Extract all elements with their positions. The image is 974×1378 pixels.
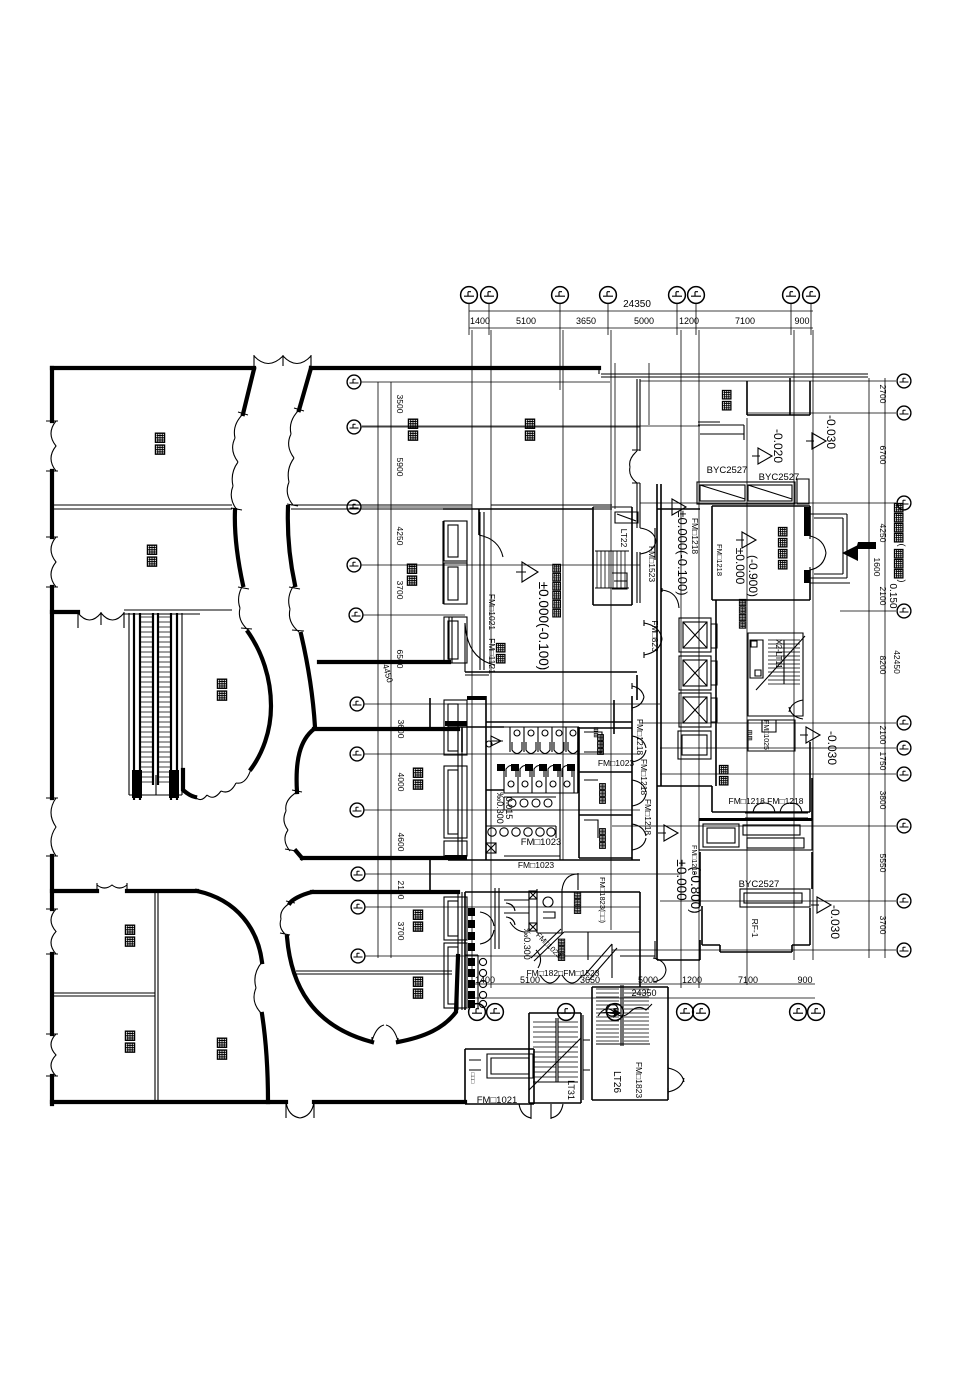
svg-text:5550: 5550 <box>878 854 888 873</box>
svg-text:FM□1023: FM□1023 <box>521 837 562 848</box>
svg-text:-0.030: -0.030 <box>828 905 842 939</box>
shop label 3 <box>217 679 226 700</box>
bottom grid bubbles <box>469 1004 486 1021</box>
stair X2-LT11 box <box>748 633 803 716</box>
door arcs right of stubs <box>480 912 494 944</box>
svg-text:): ) <box>897 580 907 583</box>
shop label 5 <box>525 419 534 440</box>
balcony right panel <box>797 479 809 504</box>
svg-text:1750: 1750 <box>878 752 888 771</box>
svg-text:900: 900 <box>794 316 809 326</box>
corridor wall A segment 3 <box>248 632 271 769</box>
lobby walls <box>657 506 810 786</box>
inter-row wall stubs <box>430 698 462 892</box>
cleaner room label <box>558 939 564 960</box>
bottom-left inner partitions <box>155 893 158 1100</box>
LT31 block outline <box>529 1013 581 1103</box>
svg-text:3700: 3700 <box>395 581 405 600</box>
lobby between stairs <box>583 1015 590 1100</box>
toilet block outer walls <box>486 696 578 860</box>
bottom dimension chain <box>472 984 815 998</box>
LT26 treads <box>596 989 649 1041</box>
small room labels right of toilets <box>598 735 604 755</box>
corridor wall A lower wavy door <box>195 769 251 800</box>
svg-text:7100: 7100 <box>735 316 755 326</box>
svg-text:5000: 5000 <box>634 316 654 326</box>
svg-text:FM□1023: FM□1023 <box>518 860 555 870</box>
open area label lower <box>720 766 728 785</box>
monitor center label <box>553 564 561 617</box>
balcony BYC2527 lower <box>699 820 812 850</box>
accessible wc label <box>574 892 580 913</box>
svg-text:3700: 3700 <box>878 916 888 935</box>
svg-text:42450: 42450 <box>892 650 902 674</box>
horizontal code texts <box>477 465 804 1106</box>
toilet mid partition <box>504 793 560 860</box>
vertical gridlines <box>472 330 813 988</box>
FM1021 room <box>465 1049 534 1104</box>
svg-text:FM□1023: FM□1023 <box>598 758 635 768</box>
svg-text:BYC2527: BYC2527 <box>739 879 780 890</box>
svg-text:FM□1823(□□): FM□1823(□□) <box>598 877 607 924</box>
corridor double door south of monitor room <box>632 683 644 711</box>
corridor wall B window 1 <box>287 408 304 506</box>
duct labels <box>748 731 752 740</box>
svg-text:‰0.300: ‰0.300 <box>495 792 505 824</box>
upper-right porch walls <box>747 378 810 415</box>
front room door arc <box>465 623 495 675</box>
wall column blocks <box>445 696 486 860</box>
monitor room right door FM1823 <box>644 620 662 658</box>
svg-text:2100: 2100 <box>878 726 888 745</box>
svg-text:4250: 4250 <box>878 524 888 543</box>
middle shop left curved edge <box>297 729 314 792</box>
top grid bubbles <box>461 287 478 304</box>
top wall right segment <box>311 366 599 370</box>
monitoring center room outline <box>443 507 637 700</box>
door FM1523 on east wall <box>640 528 656 554</box>
front room label <box>497 644 505 663</box>
bottom-left arc window <box>254 962 262 1014</box>
door arc into lift hall <box>662 588 679 608</box>
svg-text:5900: 5900 <box>395 458 405 477</box>
entrance porch <box>810 514 850 583</box>
LT26 break mark <box>598 1004 652 1016</box>
shop label 8 <box>413 910 422 931</box>
machine slot <box>750 640 763 678</box>
svg-text:2100: 2100 <box>878 587 888 606</box>
corridor wall A window 1 <box>231 412 248 510</box>
toilet right rooms doors <box>584 732 646 850</box>
corridor wall B segment 1 <box>299 368 311 410</box>
hall wall east of toilets <box>613 700 615 734</box>
bottom-left block top door <box>97 883 127 889</box>
svg-text:4600: 4600 <box>396 833 406 852</box>
svg-text:FM□1218 FM□1218: FM□1218 FM□1218 <box>729 796 804 806</box>
window on east wall <box>630 450 640 483</box>
X2-LT11 treads <box>768 640 800 684</box>
row 1-7 shop bottom wall <box>319 660 449 664</box>
LT31 treads <box>533 1022 578 1077</box>
svg-text:LT26: LT26 <box>611 1071 622 1093</box>
upper right shop top thin partition at 507 <box>291 505 612 509</box>
left dim texts (rotated) <box>381 395 406 941</box>
top wall window <box>254 355 311 368</box>
svg-text:7100: 7100 <box>738 975 758 985</box>
svg-text:FM□1218: FM□1218 <box>690 518 700 555</box>
svg-text:±0.000(-0.100): ±0.000(-0.100) <box>675 510 690 595</box>
corridor wall A window 2 <box>238 585 252 630</box>
core lower region: room with FM1218 doors <box>657 742 810 812</box>
svg-text:BYC2527: BYC2527 <box>759 472 800 483</box>
svg-text:-0.030: -0.030 <box>825 731 839 765</box>
svg-text:5000: 5000 <box>638 975 658 985</box>
svg-text:±0.000: ±0.000 <box>674 859 689 900</box>
corridor wall B segment 3 <box>301 634 315 727</box>
corridor wall A segment 2 <box>235 510 243 585</box>
wc2 rooms outline <box>465 892 640 1010</box>
top dimension chain line 24350 <box>469 310 813 312</box>
svg-text:BYC2527: BYC2527 <box>707 465 748 476</box>
svg-text:24350: 24350 <box>623 299 651 310</box>
LT22 stair box <box>593 507 632 588</box>
washbasins row 1 <box>504 797 556 810</box>
bottom wall door arcs <box>286 1102 314 1118</box>
svg-text:(-0.900): (-0.900) <box>746 555 760 597</box>
svg-text:3500: 3500 <box>395 395 405 414</box>
shop label 1 <box>155 433 164 454</box>
LT31 center rail <box>529 1018 581 1090</box>
top wall step to thin line <box>599 366 868 377</box>
door at LT26 top right <box>620 941 666 982</box>
partition between 3700 shop and lower shop <box>296 971 452 974</box>
shop label 7 <box>413 768 422 789</box>
right shops block: vertical boundary x458 between shops and fixtures <box>458 729 462 1010</box>
elevation markers (triangles) <box>516 433 831 913</box>
small room below stair <box>748 720 795 751</box>
svg-text:(-0.800): (-0.800) <box>688 866 703 913</box>
LT26 right door <box>668 1064 684 1094</box>
svg-text:6700: 6700 <box>878 446 888 465</box>
balcony BYC2527 small <box>740 889 810 907</box>
open area label top <box>723 391 731 410</box>
shop row 4250/3700: left fixtures column <box>443 521 467 604</box>
svg-text:LT22: LT22 <box>619 529 629 548</box>
svg-text:FM□1025: FM□1025 <box>762 720 769 750</box>
front room left wall <box>449 617 452 663</box>
lower middle shop (2100/3700) top wall <box>312 890 458 894</box>
residential lobby label <box>779 528 787 569</box>
svg-text:FM□1218: FM□1218 <box>635 719 645 756</box>
X2-LT11 rail and diagonal <box>756 636 805 690</box>
middle shop (3600/4000/4600) top wall <box>314 727 458 731</box>
left wall window 3 <box>46 798 58 856</box>
svg-text:(: ( <box>897 544 907 547</box>
entrance arrow <box>842 542 876 561</box>
svg-text:8200: 8200 <box>878 656 888 675</box>
ramp diagonals <box>584 944 617 980</box>
bottom wall <box>52 1100 465 1104</box>
right dim chain vertical lines <box>869 378 885 958</box>
shop label 2 <box>147 545 156 566</box>
wall y860 <box>448 859 640 861</box>
fixture strip rows 4250/3700 <box>444 521 467 663</box>
big elevation texts rotated <box>536 415 842 939</box>
stair SE double door <box>789 700 803 719</box>
svg-text:4000: 4000 <box>396 773 406 792</box>
LT22 stair landing <box>612 528 655 589</box>
svg-text:□□□: □□□ <box>469 1073 475 1084</box>
left grid bubble column <box>347 375 361 389</box>
washbasins row 2 <box>486 826 556 853</box>
shop label 11 <box>125 1031 134 1052</box>
svg-text:FM□1121: FM□1121 <box>487 638 497 674</box>
svg-text:FM□1218: FM□1218 <box>639 759 649 796</box>
toilet stall row 2 <box>504 766 578 794</box>
lower middle shop left corner curve <box>290 892 312 903</box>
svg-text:X2-LT11: X2-LT11 <box>774 639 783 669</box>
left wall with window gaps <box>50 368 54 1104</box>
canopy steps <box>698 422 744 440</box>
svg-text:-0.030: -0.030 <box>824 415 838 449</box>
svg-text:±0.000(-0.100): ±0.000(-0.100) <box>536 582 551 670</box>
lobby right wall dark fill <box>804 507 810 583</box>
top bubble ticks <box>469 303 811 390</box>
core left main wall <box>657 484 661 960</box>
LT22 stair treads <box>597 551 625 588</box>
FM1218 door arcs lower <box>745 803 808 818</box>
svg-text:1200: 1200 <box>682 975 702 985</box>
shop label 10 <box>125 925 134 946</box>
front room left wall <box>480 512 484 670</box>
svg-text:FM□1823: FM□1823 <box>634 1062 644 1099</box>
wall stub blocks column <box>468 908 475 951</box>
LT26 center rail <box>596 985 650 1046</box>
big arc right part <box>398 956 458 1042</box>
corridor wall B segment 2 <box>288 507 295 585</box>
balcony BYC2527 top <box>697 482 795 504</box>
middle shop bottom wall <box>302 856 458 860</box>
svg-text:2700: 2700 <box>878 385 888 404</box>
residential entrance annotation <box>895 504 908 583</box>
left wall window 2 <box>46 537 58 587</box>
svg-text:5100: 5100 <box>516 316 536 326</box>
left wall window 1 <box>46 421 58 471</box>
right dim texts rotated <box>872 385 902 935</box>
lower middle shop window <box>280 901 295 935</box>
FM1021 inner shelf <box>469 1054 533 1078</box>
front room door 2 <box>479 535 503 557</box>
svg-text:FM□182□FM□1523: FM□182□FM□1523 <box>526 968 599 978</box>
shop3 bottom boundary <box>183 770 195 797</box>
corridor wall A segment 1 <box>243 369 254 414</box>
svg-text:4250: 4250 <box>395 527 405 546</box>
middle shop left window <box>284 790 302 851</box>
toilet right rooms outer wall <box>579 696 632 860</box>
shop label 4 <box>408 419 417 440</box>
arc door at bottom <box>372 1025 398 1042</box>
svg-text:FM□823: FM□823 <box>650 620 660 652</box>
lobby entrance double door <box>810 533 826 573</box>
svg-text:RF-1: RF-1 <box>750 919 760 938</box>
elec room label <box>739 599 745 628</box>
left dim chain vertical line <box>378 382 391 958</box>
shop label 12 <box>217 1038 226 1059</box>
vent box top right of monitor room <box>615 512 638 523</box>
escalator bottom caps <box>132 770 179 798</box>
svg-text:FM□1021: FM□1021 <box>487 594 497 631</box>
svg-text:0.150: 0.150 <box>887 583 898 608</box>
texts rotated: door/stair codes <box>469 518 783 1100</box>
wc room small labels upper <box>594 728 598 737</box>
fixture strips middle shops rows <box>444 700 467 1008</box>
doors under bottom wall <box>519 1104 563 1119</box>
shop label 6 <box>407 564 416 585</box>
door arc into wc corridor <box>562 873 578 890</box>
top dimension chain line segments <box>469 327 813 329</box>
core bottom-left walls <box>657 940 700 960</box>
svg-text:FM□1523: FM□1523 <box>647 546 657 583</box>
cleaner room <box>564 932 640 960</box>
svg-text:3700: 3700 <box>396 922 406 941</box>
escalator treads <box>141 617 170 782</box>
left horizontal grid leader lines <box>361 382 680 956</box>
svg-text:FM□1021: FM□1021 <box>477 1095 518 1106</box>
svg-text:FM□1218: FM□1218 <box>643 799 653 836</box>
wc2 inner partitions <box>495 888 562 949</box>
wall stubs row <box>497 764 575 771</box>
RF-1 room <box>700 778 812 952</box>
right grid bubbles <box>897 374 911 388</box>
toilet stall row 1 <box>486 727 579 754</box>
diagonal partition with door <box>531 929 564 968</box>
stair direction arrow <box>600 1008 621 1018</box>
LT26 block outline <box>592 987 668 1100</box>
top wall left segment <box>52 366 254 370</box>
left wall window 4 <box>46 909 58 954</box>
lower double door arcs <box>540 975 582 983</box>
washbasin column <box>465 955 487 1008</box>
svg-text:3800: 3800 <box>878 791 888 810</box>
svg-text:‰0.300: ‰0.300 <box>522 928 532 960</box>
bottom-left block top wall <box>52 889 197 893</box>
right horizontal grid leader lines <box>612 381 896 950</box>
svg-text:900: 900 <box>797 975 812 985</box>
svg-text:6500: 6500 <box>395 650 405 669</box>
corridor wall B window 2 <box>289 585 304 632</box>
shop label 9 <box>413 977 422 998</box>
svg-text:LT31: LT31 <box>566 1080 576 1100</box>
bottom-left block quarter arc <box>197 891 262 962</box>
lower middle shop big arc <box>287 937 372 1042</box>
svg-text:FM□1218: FM□1218 <box>715 544 724 576</box>
partition shop2 bottom with window <box>52 610 78 614</box>
svg-text:-0.020: -0.020 <box>771 429 785 463</box>
elevator bank shafts <box>678 618 717 759</box>
svg-text:±0.000: ±0.000 <box>733 548 747 585</box>
upper canopy region outline <box>637 379 640 603</box>
svg-text:3650: 3650 <box>576 316 596 326</box>
left wall window 5 <box>46 1034 58 1076</box>
escalator rails <box>134 613 177 800</box>
svg-text:1600: 1600 <box>872 558 882 577</box>
shops row walls: 1-8 top wall (y696) <box>448 722 632 727</box>
partition shop1/shop2 <box>52 505 232 509</box>
svg-text:1400: 1400 <box>470 316 490 326</box>
